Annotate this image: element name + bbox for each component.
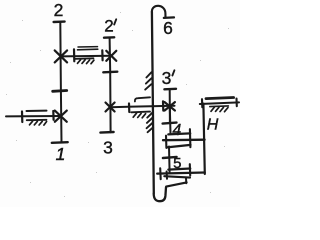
ring gear 6 top arc (152, 6, 166, 18)
carrier bottom arm (157, 173, 205, 174)
H support ground baseline (210, 105, 229, 108)
shaft III ground hatching (133, 113, 145, 118)
H support right tick (235, 99, 237, 107)
mount cross gear 3 on shaft III (106, 103, 115, 112)
carrier bottom arm left tick (159, 168, 162, 179)
axle II between gears 2 and 2' (61, 55, 111, 58)
ring gear rim hatching upper (145, 72, 151, 89)
carrier bottom fork bar (164, 176, 190, 177)
carrier top arm (163, 139, 205, 142)
svg-text:1: 1 (56, 144, 66, 164)
gear 1 bottom cap (52, 141, 68, 144)
gear 5 top cap bar (167, 145, 191, 148)
gear 3' top cap (164, 88, 176, 91)
mount cross gear 3' on shaft III (165, 102, 175, 110)
shaft III (110, 106, 175, 108)
input shaft bearing tick left (21, 112, 23, 123)
axle II bearing tick right (101, 50, 103, 60)
mount cross gear 2' on axle II (106, 51, 116, 61)
svg-text:4: 4 (172, 122, 181, 139)
shaft III bearing tick left (128, 104, 131, 113)
gear 2 edge line (59, 22, 62, 90)
svg-text:3: 3 (103, 138, 113, 158)
gear 5 edge line (168, 147, 171, 173)
shaft III housing hook line (135, 97, 150, 101)
shaft III bearing tick right (162, 101, 165, 110)
H support ground hatching (211, 107, 228, 112)
ring gear rim hatching lower (147, 112, 154, 132)
ring gear 6 bottom rim hook (154, 187, 166, 201)
svg-text:2: 2 (54, 0, 64, 20)
carrier top arm left tick (165, 136, 167, 148)
gear 2' edge line (109, 38, 112, 73)
carrier bottom right tick (189, 164, 191, 175)
input bearing ground hatching (30, 121, 47, 125)
input shaft bearing tick right (52, 111, 54, 120)
mount cross gear 2 on axle II (55, 50, 67, 62)
svg-text:3: 3 (162, 68, 172, 88)
axle II housing lower line (78, 48, 98, 51)
axle II housing top line (78, 46, 98, 48)
mount cross gear 1 on input shaft (55, 111, 67, 122)
ring gear 6 rim (152, 12, 154, 194)
mesh tick gears 1-2 (53, 89, 67, 93)
planet fork right tick (189, 129, 192, 147)
gear 4 edge line (169, 106, 172, 134)
mesh tick gear 5 with ring gear 6 (163, 157, 177, 158)
axle II ground hatching (78, 60, 94, 64)
carrier bottom stub tick (166, 172, 168, 179)
input bearing housing top line (27, 110, 47, 112)
H support left tick (201, 99, 203, 107)
axle II ground baseline (75, 57, 93, 60)
gear 3 edge line (109, 72, 111, 132)
mesh tick gears 3'-4 (163, 123, 177, 124)
paper speckles (6, 12, 229, 197)
svg-text:H: H (207, 117, 219, 134)
svg-text:6: 6 (163, 18, 173, 38)
ring gear 6 top cap (164, 16, 174, 19)
H support housing top line (206, 98, 234, 99)
gear 3 bottom cap (100, 131, 113, 134)
gear 1 edge line (60, 90, 63, 142)
input bearing ground baseline (27, 119, 47, 121)
svg-text:2: 2 (104, 17, 113, 36)
shaft III ground baseline (131, 111, 150, 114)
gear 2' top cap (104, 36, 114, 39)
axle II bearing tick left (73, 49, 76, 61)
ring gear bottom web line (166, 182, 186, 186)
gear 3' edge line (169, 89, 171, 123)
gear 4 bottom cap bar (168, 133, 190, 134)
mesh tick gears 2'-3 (103, 70, 117, 73)
gear 5 bottom cap bar (168, 169, 190, 170)
label 3 prime stroke (172, 70, 174, 75)
gear 2 top cap (54, 20, 65, 23)
input shaft (6, 115, 61, 117)
label 2 prime stroke (114, 19, 116, 24)
carrier H shaft vertical (203, 104, 204, 174)
carrier H support shaft line (200, 102, 239, 104)
web end tick (185, 178, 187, 183)
